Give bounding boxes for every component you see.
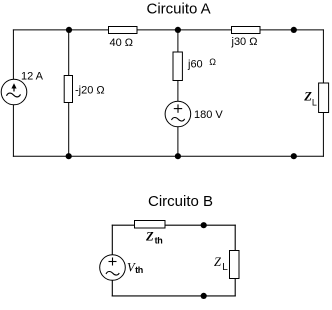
svg-text:Z: Z: [214, 255, 222, 269]
svg-text:j30 Ω: j30 Ω: [231, 36, 258, 48]
svg-text:Circuito B: Circuito B: [148, 193, 213, 210]
svg-text:j60: j60: [187, 59, 203, 71]
svg-text:12 A: 12 A: [21, 70, 44, 82]
svg-text:180 V: 180 V: [194, 109, 223, 121]
svg-text:40 Ω: 40 Ω: [110, 37, 134, 49]
svg-text:th: th: [135, 265, 143, 275]
svg-text:L: L: [222, 262, 228, 273]
svg-text:-j20 Ω: -j20 Ω: [75, 85, 105, 97]
svg-text:th: th: [155, 235, 163, 245]
svg-text:Z: Z: [145, 229, 154, 243]
svg-text:L: L: [312, 97, 317, 107]
svg-text:Circuito A: Circuito A: [147, 1, 211, 18]
svg-text:Ω: Ω: [209, 57, 216, 67]
